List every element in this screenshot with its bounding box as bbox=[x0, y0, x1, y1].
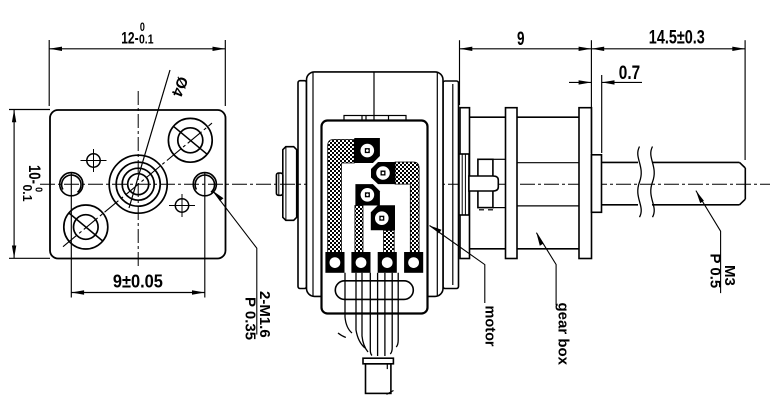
svg-text:0: 0 bbox=[140, 22, 145, 34]
svg-text:9±0.05: 9±0.05 bbox=[113, 272, 163, 292]
svg-text:14.5±0.3: 14.5±0.3 bbox=[649, 27, 705, 48]
svg-text:9: 9 bbox=[517, 29, 525, 50]
svg-text:motor: motor bbox=[482, 306, 498, 347]
svg-text:12-: 12- bbox=[121, 29, 138, 48]
svg-text:0.7: 0.7 bbox=[619, 63, 640, 84]
svg-text:P 0.5: P 0.5 bbox=[707, 254, 724, 289]
svg-text:P 0.35: P 0.35 bbox=[242, 297, 259, 340]
svg-text:Ø4: Ø4 bbox=[168, 74, 192, 100]
svg-text:0.1: 0.1 bbox=[20, 185, 34, 202]
svg-text:0.1: 0.1 bbox=[139, 33, 154, 47]
svg-text:gear box: gear box bbox=[555, 303, 572, 366]
svg-text:10-: 10- bbox=[25, 165, 44, 184]
svg-text:0: 0 bbox=[33, 187, 44, 192]
